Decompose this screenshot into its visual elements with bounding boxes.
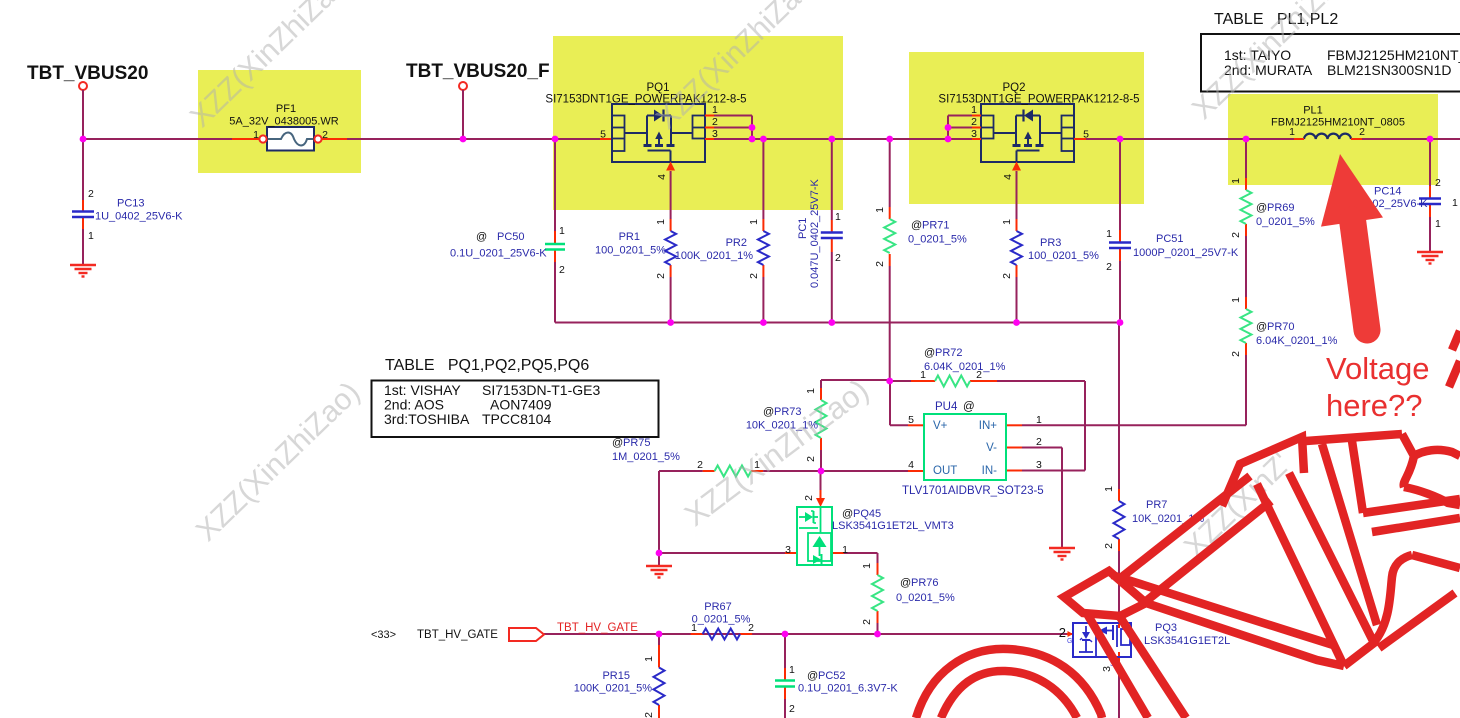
wire TBT_HV_GATE bus (y=634) <box>544 633 1067 635</box>
table box PQ list <box>372 381 659 438</box>
arrow PQ1 pin4 <box>666 162 675 171</box>
transistor PQ1 (MOSFET) <box>612 104 705 162</box>
wire PC13 branch vertical <box>82 139 84 200</box>
wire PQ45 pin2 drop from node <box>820 471 822 490</box>
wire PQ1 pin1 loop <box>705 115 714 117</box>
node TBT_VBUS20 terminal circle <box>79 82 87 90</box>
wire PC51 branch vertical <box>1119 139 1121 230</box>
junction HV_GATE at PR15 <box>656 631 663 638</box>
red sliver top right <box>1449 361 1460 387</box>
wire PR71 branch vertical down to PR72 node <box>889 139 891 207</box>
giant letter O inner arc <box>941 671 1077 718</box>
giant letter N upper diagonal channel <box>1118 476 1250 580</box>
fuse PF1 <box>267 127 314 151</box>
resistor PR15 <box>654 668 665 706</box>
resistor PR72 (green, horizontal) <box>935 376 970 387</box>
wire PQ2 pin3 stub <box>972 138 981 140</box>
op-amp comparator PU4 <box>924 414 1006 480</box>
fuse PF1 pin1 terminal <box>259 135 266 142</box>
wire V+ drop from node to PU4 pin5 <box>889 381 891 425</box>
wire PR69/PR70 branch vertical to PU4 IN+ <box>1245 139 1247 178</box>
wire main bus segment PQ2 to PL1 <box>1074 138 1304 140</box>
junction main bus at TBT_VBUS20_F <box>460 136 467 143</box>
resistor PR70 (green) <box>1241 309 1252 343</box>
table box PL list <box>1201 34 1460 92</box>
transistor PQ45 (green dual FET) <box>797 507 832 565</box>
wire PU4 IN+ to PR70 (y=425.3) <box>1022 424 1246 426</box>
junction main bus at TBT_VBUS20 <box>80 136 87 143</box>
resistor PR69 (green) <box>1241 190 1252 224</box>
highlight box around PQ2 <box>909 52 1144 204</box>
wire PR72 pin2 to IN- vertical <box>1084 381 1086 471</box>
wire PQ2 pin5 stub <box>1074 138 1086 140</box>
inductor PL1 <box>1304 134 1351 139</box>
resistor PR71 (green) <box>884 219 895 253</box>
ground under PC14 <box>1417 251 1443 253</box>
ground under PR75 node <box>646 565 672 567</box>
highlight box around PF1 <box>198 70 361 173</box>
resistor PR3 <box>1011 231 1022 265</box>
resistor PR75 (green, horizontal) <box>715 466 752 477</box>
red annotation text Voltage here?? <box>1326 350 1429 424</box>
ground under PC13 <box>70 264 96 266</box>
wire PU4 OUT row to PR75/PR73 node (y=471) <box>821 470 908 472</box>
wire PR73 top corner to node <box>821 379 890 381</box>
junction second bus at PC1 <box>828 319 835 326</box>
fuse PF1 pin2 terminal <box>314 135 321 142</box>
wire PQ2 pin2 loop <box>972 127 981 129</box>
highlight box around PQ1 <box>553 36 843 210</box>
giant letter O outer arc <box>916 649 1102 718</box>
wire PQ45 pin1 to PR76 <box>832 552 844 554</box>
wire TBT_VBUS20_F vertical stub <box>462 90 464 139</box>
wire PR2 branch vertical <box>762 139 764 219</box>
gray watermark texts <box>184 0 361 134</box>
wire PR73 vertical <box>820 380 822 388</box>
wire PQ1 pin4 to PR1 vertical <box>670 171 672 219</box>
giant letter E serif foot <box>1375 555 1412 641</box>
wire PQ3 pin2 stub <box>1067 633 1073 635</box>
wire PQ1 pin2 loop <box>705 127 714 129</box>
junction PQ1 pins on bus <box>749 136 756 143</box>
ground under PU4 V- <box>1049 547 1075 549</box>
wire PQ2 pin1 loop <box>972 115 981 117</box>
wire PQ1 pin3 stub <box>705 138 714 140</box>
wire PU4 V- to ground <box>1006 447 1022 449</box>
capacitor PC1 <box>821 231 843 233</box>
transistor PQ3 (blue dual FET) <box>1073 623 1131 657</box>
wire ground stub below node <box>658 553 660 566</box>
transistor PQ2 (MOSFET, mirrored) <box>981 104 1074 162</box>
wire main VBUS bus segment left (y=139) <box>83 138 600 140</box>
highlight box around PL1 <box>1228 94 1438 185</box>
junction OUT/PR75/PR73/PQ45 node <box>818 468 825 475</box>
junction second bus at PR3 <box>1013 319 1020 326</box>
arrow PQ2 pin4 <box>1012 162 1021 171</box>
resistor PR7 <box>1114 501 1125 539</box>
resistor PR67 (horizontal) <box>703 629 741 640</box>
junction HV_GATE at PR76 <box>874 631 881 638</box>
junction ground node under PR75 <box>656 550 663 557</box>
capacitor PC52 (green) <box>775 679 795 681</box>
capacitor PC51 <box>1109 241 1131 243</box>
wire main bus segment PL1 to right edge <box>1351 138 1460 140</box>
junction main bus at PC14 <box>1427 136 1434 143</box>
junction main bus at PR69 <box>1243 136 1250 143</box>
resistor PR73 (green) <box>816 400 827 438</box>
resistor PR2 <box>758 231 769 265</box>
junction PQ2 pins on bus <box>945 136 952 143</box>
wire PC1 branch vertical <box>831 139 833 220</box>
wire PR75 row <box>763 470 821 472</box>
giant letter E top serif <box>1306 434 1402 441</box>
wire PR75 pin2 corner down to ground node <box>658 471 660 553</box>
giant letter N lower shallow band <box>1112 575 1336 646</box>
wire TBT_VBUS20 vertical from terminal to bus <box>82 90 84 139</box>
big red arrow pointing at PL1 <box>1321 154 1383 227</box>
wire PC50 branch vertical <box>554 139 556 231</box>
giant letter E top flare <box>1402 434 1414 487</box>
giant letter N top serif chevron <box>1222 437 1304 506</box>
wire PR7 column vertical from second bus through PQ3 <box>1118 323 1120 490</box>
wire main bus segment PQ1 to PQ2 <box>705 138 981 140</box>
junction main bus at PC1 <box>828 136 835 143</box>
wire second bus (gate node, y=322.5) <box>555 322 1120 324</box>
resistor PR1 <box>665 231 676 265</box>
wire PC14 branch vertical <box>1429 139 1431 186</box>
junction second bus at PC51 <box>1117 319 1124 326</box>
resistor PR76 (green) <box>872 575 883 611</box>
junction HV_GATE at PC52 <box>782 631 789 638</box>
arrow into PQ45 pin2 <box>816 498 825 507</box>
giant letter N top-left serif beak <box>1064 571 1146 616</box>
junction bus at PR2 drop <box>760 136 767 143</box>
wire PC52 branch vertical <box>784 634 786 668</box>
wire PQ2 pin4 to PR3 vertical <box>1016 171 1018 219</box>
giant letter N steep right stroke <box>1257 484 1344 666</box>
giant letter N left stroke descending <box>1086 612 1148 718</box>
junction PQ2 pins 1-2 <box>945 124 952 131</box>
wire PR15 branch vertical <box>658 634 660 645</box>
junction PR72/PR73/V+ node <box>886 378 893 385</box>
capacitor PC50 (green) <box>545 243 565 245</box>
junction second bus at PR1 <box>667 319 674 326</box>
junction second bus at PR2 <box>760 319 767 326</box>
junction main bus at PC51 <box>1117 136 1124 143</box>
node TBT_VBUS20_F terminal circle <box>459 82 467 90</box>
junction main bus at PC50 <box>552 136 559 143</box>
junction PQ1 pins 1-2 <box>749 124 756 131</box>
sheet connector TBT_HV_GATE <box>509 628 544 641</box>
wire ground node to PQ45 pin3 <box>659 552 785 554</box>
capacitor PC13 <box>72 210 94 212</box>
capacitor PC14 <box>1419 197 1441 199</box>
junction main bus at PR71 <box>886 136 893 143</box>
giant letter E mid bar <box>1363 499 1460 513</box>
giant letter E spine edges <box>1322 444 1377 625</box>
wire PR72 node row (y=381) <box>890 380 911 382</box>
